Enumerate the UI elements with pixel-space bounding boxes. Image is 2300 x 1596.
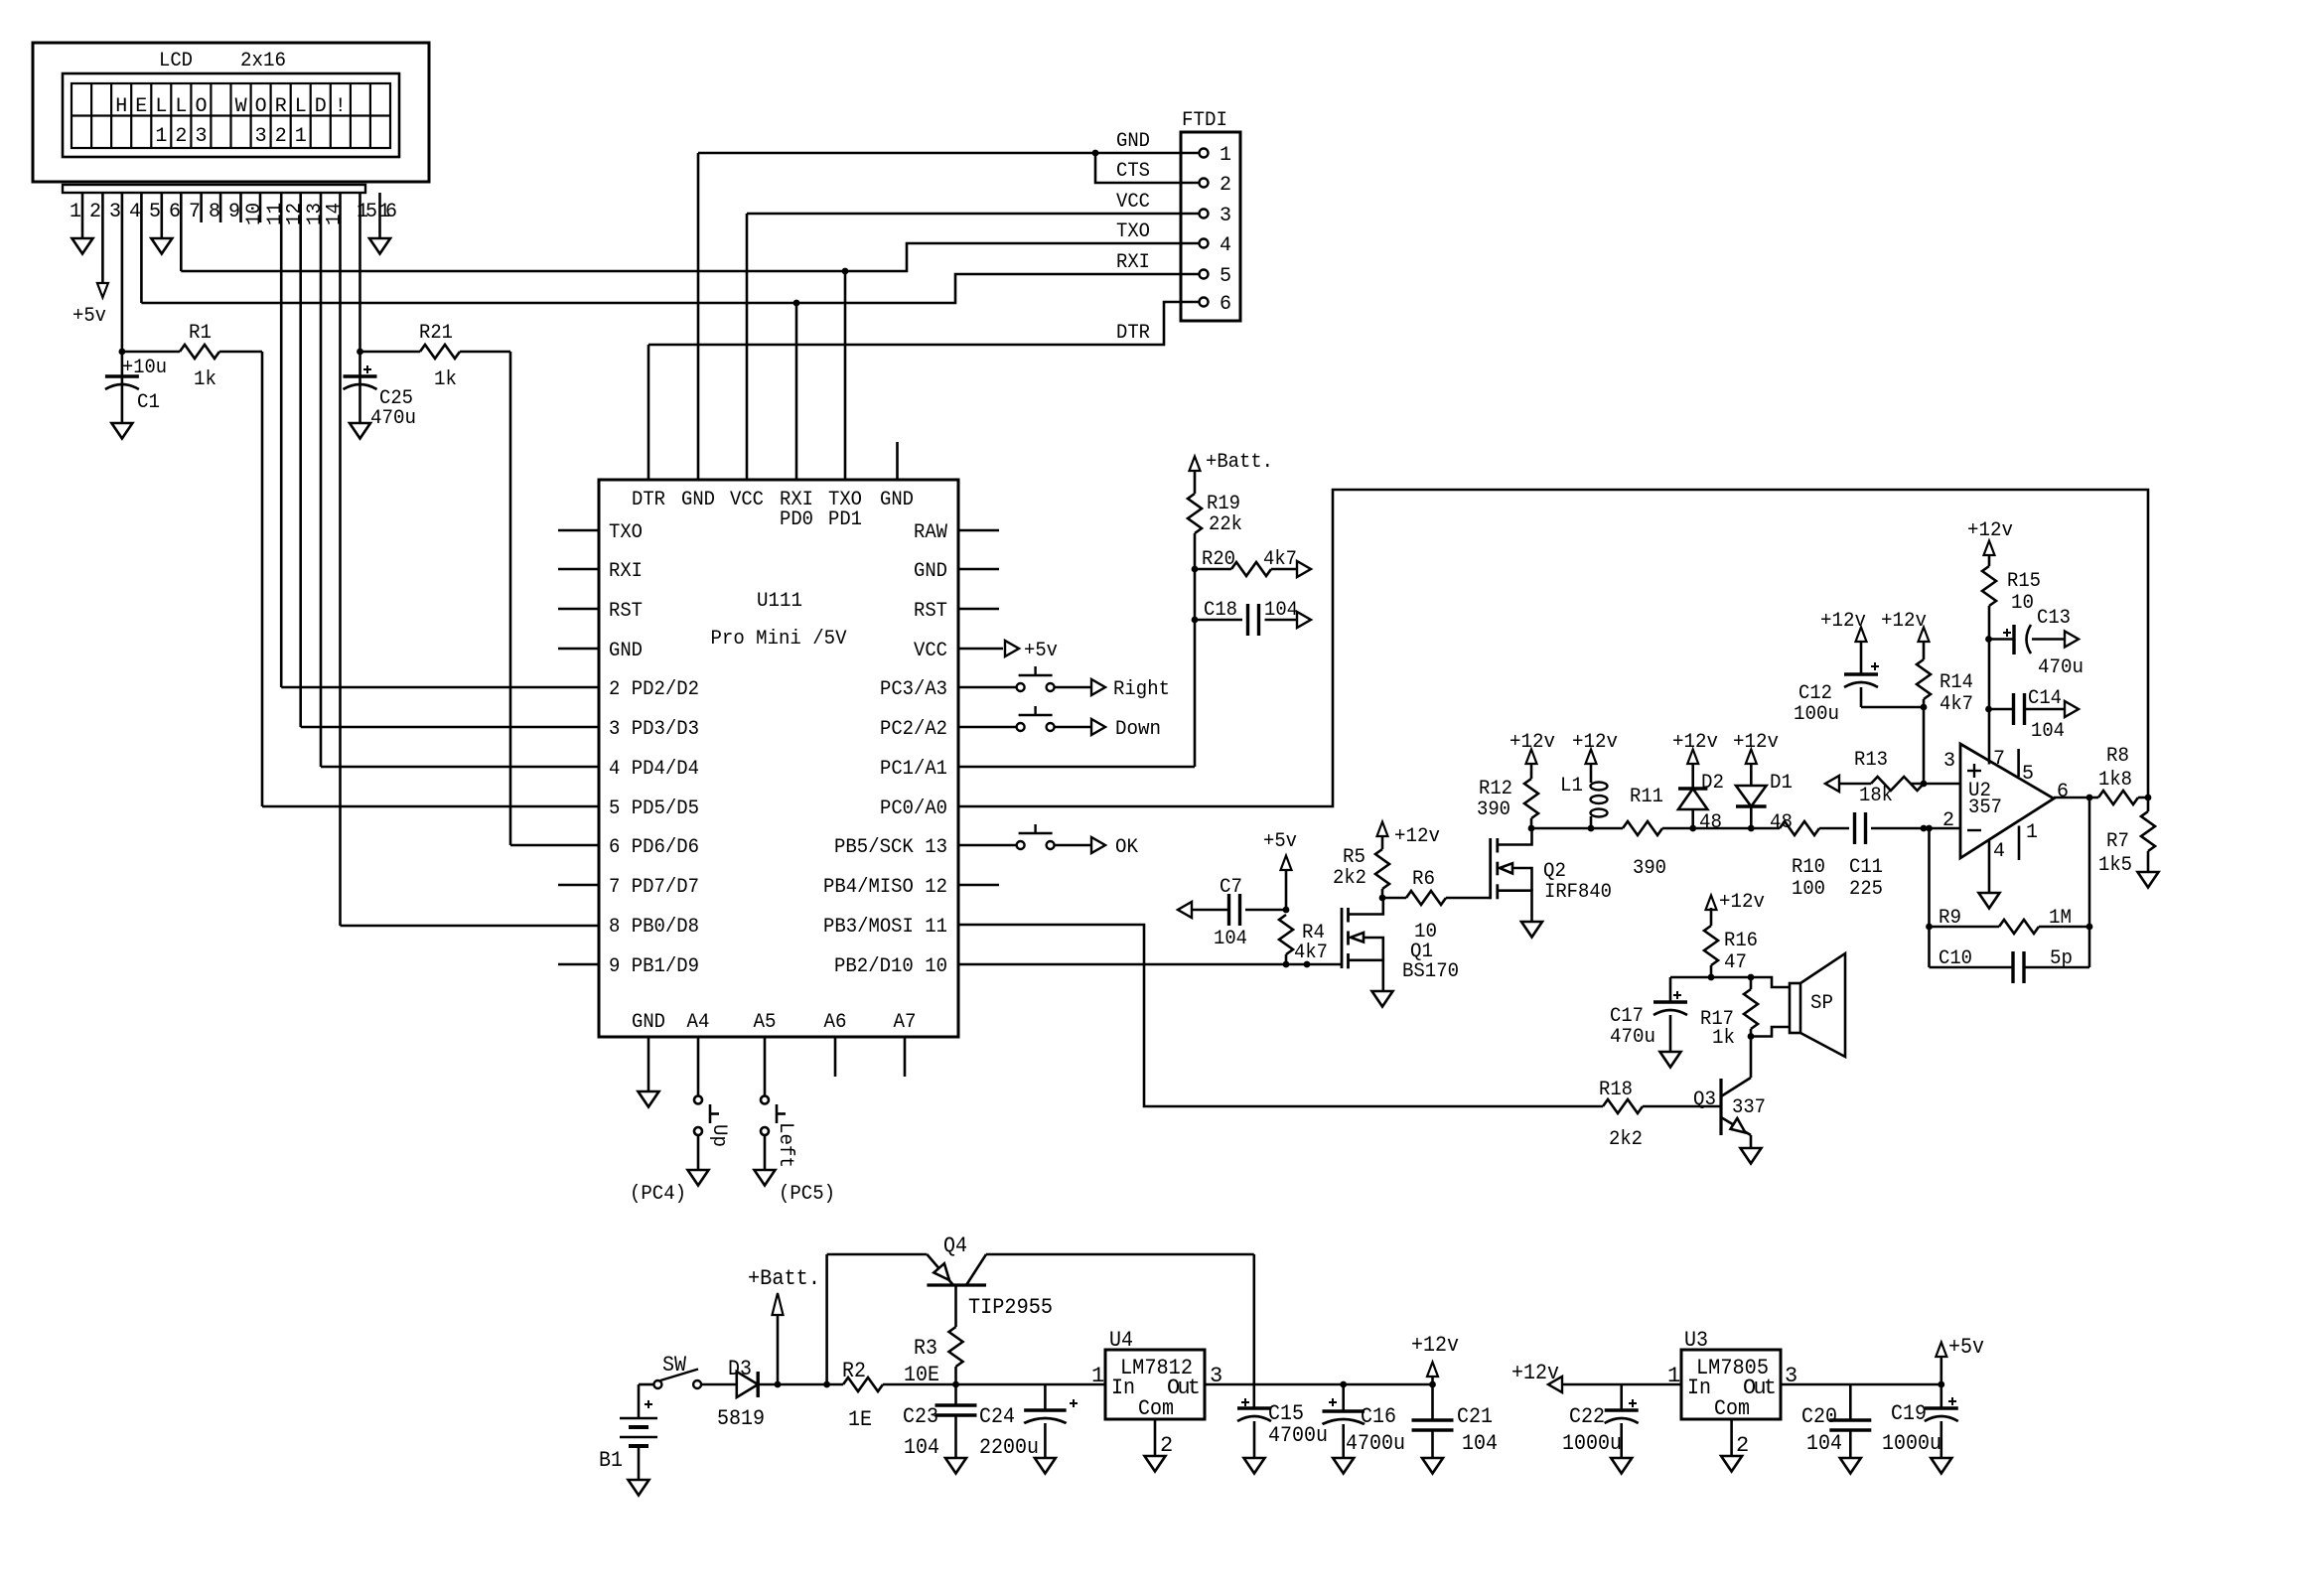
svg-text:2: 2 <box>175 125 187 148</box>
svg-text:2k2: 2k2 <box>1609 1128 1643 1151</box>
svg-text:PB3/MOSI 11: PB3/MOSI 11 <box>823 916 947 939</box>
svg-text:4700u: 4700u <box>1268 1423 1328 1448</box>
svg-text:CTS: CTS <box>1116 160 1150 183</box>
svg-text:3: 3 <box>109 201 121 223</box>
svg-text:FTDI: FTDI <box>1182 109 1227 132</box>
svg-text:5p: 5p <box>2050 947 2073 970</box>
svg-text:A5: A5 <box>754 1011 777 1034</box>
svg-text:C21: C21 <box>1457 1404 1493 1429</box>
svg-text:+5v: +5v <box>1948 1335 1984 1360</box>
svg-text:O: O <box>255 95 267 118</box>
svg-text:1k5: 1k5 <box>2098 854 2132 877</box>
svg-text:390: 390 <box>1477 798 1510 821</box>
svg-text:4k7: 4k7 <box>1294 942 1328 964</box>
svg-text:3: 3 <box>255 125 267 148</box>
svg-text:C18: C18 <box>1204 599 1237 622</box>
svg-text:104: 104 <box>904 1435 939 1460</box>
svg-text:In: In <box>1111 1376 1135 1400</box>
svg-text:+12v: +12v <box>1733 731 1779 754</box>
svg-text:R18: R18 <box>1599 1079 1633 1101</box>
svg-text:Q2: Q2 <box>1543 860 1566 883</box>
svg-text:10: 10 <box>243 203 266 225</box>
svg-text:R: R <box>275 95 287 118</box>
svg-text:R2: R2 <box>842 1359 866 1383</box>
svg-text:7: 7 <box>1993 748 2005 771</box>
svg-text:3: 3 <box>1220 205 1231 227</box>
svg-text:VCC: VCC <box>914 640 947 662</box>
svg-text:+12v: +12v <box>1394 825 1440 848</box>
svg-text:DTR: DTR <box>632 489 665 511</box>
svg-text:(PC4): (PC4) <box>630 1183 686 1206</box>
svg-text:A4: A4 <box>687 1011 710 1034</box>
svg-text:3: 3 <box>1943 750 1955 773</box>
svg-text:BS170: BS170 <box>1402 960 1459 983</box>
svg-text:48: 48 <box>1699 811 1722 834</box>
svg-text:1k: 1k <box>194 368 216 391</box>
svg-text:Com: Com <box>1138 1396 1174 1421</box>
svg-text:In: In <box>1687 1376 1711 1400</box>
svg-text:PD1: PD1 <box>828 508 862 531</box>
svg-text:GND: GND <box>681 489 715 511</box>
svg-text:U3: U3 <box>1684 1328 1708 1353</box>
svg-text:2: 2 <box>89 201 101 223</box>
svg-text:1000u: 1000u <box>1562 1431 1622 1456</box>
svg-text:TXO: TXO <box>609 521 643 544</box>
svg-text:GND: GND <box>609 640 643 662</box>
svg-text:C24: C24 <box>979 1404 1015 1429</box>
svg-text:R10: R10 <box>1792 856 1825 879</box>
svg-text:!: ! <box>335 95 347 118</box>
svg-text:C12: C12 <box>1798 682 1832 705</box>
svg-text:PD0: PD0 <box>780 508 813 531</box>
svg-text:B1: B1 <box>599 1448 623 1473</box>
svg-text:104: 104 <box>1806 1431 1842 1456</box>
svg-text:C10: C10 <box>1939 947 1972 970</box>
svg-text:+12v: +12v <box>1411 1333 1459 1358</box>
svg-text:4: 4 <box>129 201 141 223</box>
svg-text:C20: C20 <box>1801 1404 1837 1429</box>
svg-text:5819: 5819 <box>717 1406 765 1431</box>
svg-text:+12v: +12v <box>1572 731 1618 754</box>
svg-text:U111: U111 <box>757 590 802 613</box>
svg-text:2x16: 2x16 <box>240 50 286 73</box>
svg-text:C13: C13 <box>2037 607 2071 630</box>
svg-text:10E: 10E <box>904 1363 939 1387</box>
svg-text:104: 104 <box>2031 720 2065 743</box>
svg-text:5: 5 <box>1220 265 1231 288</box>
svg-text:GND: GND <box>632 1011 665 1034</box>
svg-text:R13: R13 <box>1854 749 1888 772</box>
svg-text:D: D <box>315 95 327 118</box>
svg-text:2k2: 2k2 <box>1333 867 1366 890</box>
svg-text:6: 6 <box>1220 293 1231 316</box>
svg-text:D3: D3 <box>728 1357 752 1381</box>
svg-text:1: 1 <box>70 201 81 223</box>
svg-text:OK: OK <box>1115 836 1138 859</box>
svg-text:+12v: +12v <box>1820 610 1866 633</box>
svg-text:R16: R16 <box>1724 930 1758 952</box>
svg-text:C11: C11 <box>1849 856 1883 879</box>
svg-text:VCC: VCC <box>1116 191 1150 214</box>
svg-text:PB2/D10 10: PB2/D10 10 <box>834 955 947 978</box>
svg-text:1: 1 <box>2026 821 2038 844</box>
svg-text:L: L <box>295 95 307 118</box>
svg-text:Pro Mini /5V: Pro Mini /5V <box>711 628 847 651</box>
svg-text:2: 2 <box>1942 809 1954 832</box>
svg-text:W: W <box>235 95 247 118</box>
svg-text:PB4/MISO 12: PB4/MISO 12 <box>823 876 947 899</box>
svg-text:9 PB1/D9: 9 PB1/D9 <box>609 955 699 978</box>
svg-text:4: 4 <box>1220 234 1231 257</box>
svg-text:L1: L1 <box>1560 775 1583 798</box>
svg-text:+Batt.: +Batt. <box>748 1266 820 1291</box>
svg-text:O: O <box>195 95 207 118</box>
svg-text:C7: C7 <box>1220 876 1242 899</box>
svg-text:15: 15 <box>357 201 377 223</box>
svg-text:R21: R21 <box>419 322 453 345</box>
svg-text:PC0/A0: PC0/A0 <box>880 798 947 820</box>
svg-text:PC2/A2: PC2/A2 <box>880 718 947 741</box>
svg-text:4 PD4/D4: 4 PD4/D4 <box>609 758 699 781</box>
svg-text:R15: R15 <box>2007 570 2041 593</box>
svg-text:C14: C14 <box>2028 687 2062 710</box>
svg-text:22k: 22k <box>1209 513 1242 536</box>
svg-text:104: 104 <box>1462 1431 1498 1456</box>
svg-text:337: 337 <box>1732 1096 1766 1119</box>
svg-text:5: 5 <box>2022 763 2034 786</box>
svg-text:Right: Right <box>1113 678 1170 701</box>
svg-text:SP: SP <box>1810 992 1833 1015</box>
svg-text:8: 8 <box>209 201 220 223</box>
svg-text:1k: 1k <box>1712 1027 1735 1050</box>
svg-text:C16: C16 <box>1361 1404 1396 1429</box>
svg-text:5: 5 <box>149 201 161 223</box>
svg-text:2: 2 <box>1160 1433 1173 1458</box>
svg-text:RAW: RAW <box>914 521 947 544</box>
svg-text:R7: R7 <box>2106 830 2129 853</box>
svg-text:1k: 1k <box>434 368 457 391</box>
svg-text:2: 2 <box>275 125 287 148</box>
svg-text:1M: 1M <box>2049 907 2072 930</box>
svg-text:470u: 470u <box>2038 656 2084 679</box>
svg-text:1: 1 <box>1091 1364 1104 1388</box>
svg-text:4k7: 4k7 <box>1940 693 1973 716</box>
svg-text:7 PD7/D7: 7 PD7/D7 <box>609 876 699 899</box>
svg-text:5 PD5/D5: 5 PD5/D5 <box>609 798 699 820</box>
svg-text:A6: A6 <box>824 1011 847 1034</box>
svg-text:RST: RST <box>914 600 947 623</box>
svg-text:1000u: 1000u <box>1882 1431 1941 1456</box>
svg-text:7: 7 <box>189 201 201 223</box>
svg-text:+5v: +5v <box>1263 830 1297 853</box>
svg-text:48: 48 <box>1770 811 1793 834</box>
svg-text:+10u: +10u <box>122 357 167 379</box>
svg-text:9: 9 <box>228 201 240 223</box>
svg-text:DTR: DTR <box>1116 322 1150 345</box>
svg-text:+12v: +12v <box>1509 731 1555 754</box>
svg-text:C17: C17 <box>1610 1005 1644 1028</box>
svg-text:R12: R12 <box>1479 778 1512 800</box>
svg-text:+12v: +12v <box>1672 731 1718 754</box>
svg-text:1k8: 1k8 <box>2098 769 2132 792</box>
svg-text:104: 104 <box>1214 928 1247 950</box>
svg-text:C22: C22 <box>1569 1404 1605 1429</box>
svg-text:4700u: 4700u <box>1346 1431 1405 1456</box>
svg-text:C19: C19 <box>1891 1401 1927 1426</box>
svg-text:H: H <box>115 95 127 118</box>
svg-text:390: 390 <box>1633 857 1666 880</box>
svg-text:R19: R19 <box>1207 493 1240 515</box>
svg-text:+12v: +12v <box>1967 519 2013 542</box>
svg-text:+5v: +5v <box>72 305 106 328</box>
svg-text:R8: R8 <box>2106 745 2129 768</box>
svg-text:16: 16 <box>378 201 397 223</box>
svg-text:C1: C1 <box>137 391 160 414</box>
svg-text:D2: D2 <box>1701 772 1724 795</box>
svg-text:1: 1 <box>295 125 307 148</box>
svg-text:C23: C23 <box>903 1404 938 1429</box>
svg-text:VCC: VCC <box>730 489 764 511</box>
svg-text:+5v: +5v <box>1024 640 1058 662</box>
svg-text:3: 3 <box>195 125 207 148</box>
svg-text:Up: Up <box>707 1124 730 1147</box>
svg-text:4: 4 <box>1993 840 2005 863</box>
svg-text:470u: 470u <box>1610 1026 1655 1049</box>
svg-text:+12v: +12v <box>1719 891 1765 914</box>
svg-text:104: 104 <box>1264 599 1298 622</box>
svg-text:470u: 470u <box>370 407 416 430</box>
svg-text:1: 1 <box>1667 1364 1680 1388</box>
svg-text:R14: R14 <box>1940 671 1973 694</box>
svg-text:GND: GND <box>1116 130 1150 153</box>
svg-text:R9: R9 <box>1939 907 1961 930</box>
svg-text:L: L <box>155 95 167 118</box>
svg-text:225: 225 <box>1849 878 1883 901</box>
svg-text:IRF840: IRF840 <box>1544 881 1612 904</box>
svg-text:L: L <box>175 95 187 118</box>
svg-text:LCD: LCD <box>159 50 193 73</box>
svg-text:PB5/SCK 13: PB5/SCK 13 <box>834 836 947 859</box>
svg-text:2: 2 <box>1220 174 1231 197</box>
svg-text:E: E <box>135 95 147 118</box>
svg-text:2: 2 <box>1736 1433 1749 1458</box>
svg-text:10: 10 <box>2011 592 2034 615</box>
svg-text:8 PB0/D8: 8 PB0/D8 <box>609 916 699 939</box>
svg-text:R20: R20 <box>1202 548 1235 571</box>
svg-text:RST: RST <box>609 600 643 623</box>
svg-text:GND: GND <box>914 560 947 583</box>
svg-text:1: 1 <box>155 125 167 148</box>
svg-text:3 PD3/D3: 3 PD3/D3 <box>609 718 699 741</box>
svg-text:2200u: 2200u <box>979 1435 1039 1460</box>
svg-text:R5: R5 <box>1343 846 1366 869</box>
svg-text:4k7: 4k7 <box>1263 548 1297 571</box>
svg-text:Q3: Q3 <box>1693 1088 1716 1111</box>
svg-text:R6: R6 <box>1412 868 1435 891</box>
svg-text:RXI: RXI <box>609 560 643 583</box>
svg-text:U4: U4 <box>1109 1328 1133 1353</box>
svg-text:R11: R11 <box>1630 786 1663 808</box>
svg-text:6: 6 <box>2057 781 2069 803</box>
svg-text:RXI: RXI <box>1116 251 1150 274</box>
svg-text:Left: Left <box>774 1122 796 1168</box>
svg-text:Com: Com <box>1714 1396 1750 1421</box>
svg-text:+Batt.: +Batt. <box>1206 451 1273 474</box>
svg-text:PC1/A1: PC1/A1 <box>880 758 947 781</box>
svg-text:Down: Down <box>1115 718 1161 741</box>
svg-text:R1: R1 <box>189 322 212 345</box>
svg-text:6: 6 <box>169 201 181 223</box>
svg-text:SW: SW <box>662 1353 687 1378</box>
svg-text:18k: 18k <box>1859 785 1893 807</box>
svg-text:(PC5): (PC5) <box>779 1183 835 1206</box>
svg-text:100: 100 <box>1792 878 1825 901</box>
svg-text:1: 1 <box>1220 144 1231 167</box>
svg-text:TXO: TXO <box>1116 220 1150 243</box>
svg-text:Q4: Q4 <box>943 1233 967 1258</box>
svg-text:1E: 1E <box>848 1407 872 1432</box>
svg-text:D1: D1 <box>1770 772 1793 795</box>
svg-text:TIP2955: TIP2955 <box>968 1295 1053 1320</box>
svg-text:6 PD6/D6: 6 PD6/D6 <box>609 836 699 859</box>
svg-text:14: 14 <box>324 203 347 225</box>
svg-text:2 PD2/D2: 2 PD2/D2 <box>609 678 699 701</box>
svg-text:47: 47 <box>1724 951 1747 974</box>
svg-text:GND: GND <box>880 489 914 511</box>
svg-text:A7: A7 <box>894 1011 917 1034</box>
svg-text:+12v: +12v <box>1881 610 1927 633</box>
svg-text:R3: R3 <box>914 1336 937 1361</box>
svg-text:PC3/A3: PC3/A3 <box>880 678 947 701</box>
svg-text:357: 357 <box>1968 797 2002 819</box>
svg-text:100u: 100u <box>1794 703 1839 726</box>
